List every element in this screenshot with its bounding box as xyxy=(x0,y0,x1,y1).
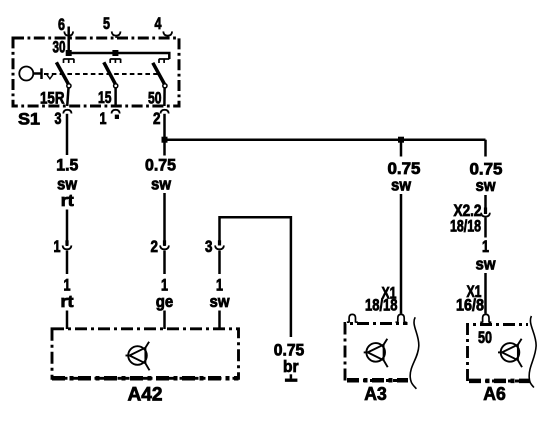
wire below junction xyxy=(163,140,166,156)
svg-text:2: 2 xyxy=(153,110,161,128)
junction dot contact 2 xyxy=(112,50,118,56)
connector 3 pin xyxy=(218,240,221,245)
wire above connector 1 xyxy=(66,210,69,247)
wire below X2.2 xyxy=(484,218,487,238)
pin 3 socket xyxy=(63,110,71,114)
svg-text:15R: 15R xyxy=(40,90,65,108)
svg-text:1.5: 1.5 xyxy=(56,157,78,175)
wire down to A3 xyxy=(400,194,403,314)
svg-text:A3: A3 xyxy=(364,383,387,404)
wire into A42 pin 3 xyxy=(218,311,221,330)
A6 box bottom bold edge xyxy=(469,379,530,384)
ground wire lower stub xyxy=(290,374,293,378)
A42 box bottom bold edge xyxy=(52,376,239,381)
svg-text:50: 50 xyxy=(478,329,492,347)
pin 5 stub xyxy=(115,36,117,38)
svg-text:6: 6 xyxy=(58,16,65,34)
svg-text:3: 3 xyxy=(55,110,62,128)
cylinder link xyxy=(34,72,42,75)
switch blade 1 xyxy=(56,62,68,84)
fixed contact 1 (comb) xyxy=(64,59,74,63)
wire from junction to A3 xyxy=(400,140,403,157)
A3 pin socket (X1) xyxy=(347,314,358,322)
switch S1 box xyxy=(13,38,179,106)
blade 1 wire to box edge xyxy=(67,88,68,106)
connector 3 socket xyxy=(215,245,224,249)
fixed contact 2 (comb) xyxy=(110,59,120,63)
A3 pin socket with wire (X1) xyxy=(396,314,407,322)
cylinder link bar xyxy=(40,68,43,79)
switch blade 3 xyxy=(153,63,165,84)
switch blade 2 xyxy=(104,62,116,84)
svg-text:S1: S1 xyxy=(18,110,40,129)
fanfare horn A6 box xyxy=(468,325,531,382)
svg-text:4: 4 xyxy=(155,15,163,33)
svg-text:0.75: 0.75 xyxy=(388,160,421,178)
A3 break (torn edge) xyxy=(410,317,419,389)
svg-text:sw: sw xyxy=(391,177,411,195)
pin 5 socket xyxy=(112,31,121,35)
svg-text:30: 30 xyxy=(53,39,66,57)
svg-text:2: 2 xyxy=(151,238,159,256)
wire below connector 2 xyxy=(163,251,166,275)
pin 6 stub wire (terminal 30 feed) xyxy=(67,27,70,54)
svg-text:50: 50 xyxy=(148,90,162,108)
ground symbol xyxy=(285,379,298,382)
pin 2 socket xyxy=(161,110,169,114)
wire above connector 2 xyxy=(163,193,166,246)
svg-text:0.75: 0.75 xyxy=(274,341,305,359)
horn symbol A3 xyxy=(364,339,388,368)
horn symbol A42 xyxy=(126,342,150,371)
svg-text:sw: sw xyxy=(151,176,171,194)
svg-text:A42: A42 xyxy=(128,384,163,406)
ground branch wire (up and over) xyxy=(220,217,291,337)
mechanical coupling dashed line xyxy=(44,73,159,75)
fixed contact 3 (comb) xyxy=(159,59,169,63)
svg-text:rt: rt xyxy=(61,192,75,210)
actuation arrow xyxy=(47,75,53,79)
connector 2 socket xyxy=(160,245,169,249)
pin 1 socket xyxy=(112,110,120,114)
connector 2 pin xyxy=(163,240,166,245)
svg-text:br: br xyxy=(283,358,299,376)
svg-text:1: 1 xyxy=(161,276,168,294)
svg-text:1: 1 xyxy=(216,276,223,294)
svg-text:3: 3 xyxy=(205,238,213,256)
main junction node xyxy=(162,137,168,143)
terminal 30 bus wire xyxy=(69,53,170,59)
svg-text:16/8: 16/8 xyxy=(456,296,484,314)
wire above X2.2 xyxy=(484,195,487,208)
blade 3 wire to box edge xyxy=(163,88,166,106)
svg-text:18/18: 18/18 xyxy=(365,296,398,314)
junction dot contact 1 xyxy=(66,50,72,56)
pin 4 socket xyxy=(163,31,172,35)
pin 6 socket xyxy=(64,31,73,35)
svg-text:sw: sw xyxy=(476,256,496,274)
svg-text:18/18: 18/18 xyxy=(450,217,481,235)
horn unit A42 box xyxy=(52,329,239,379)
A6 pin socket (X1) xyxy=(480,314,491,322)
wire S1 pin 3 down xyxy=(66,114,69,155)
svg-text:1: 1 xyxy=(482,238,489,256)
wire corner to A6 xyxy=(484,140,487,157)
svg-text:sw: sw xyxy=(57,176,77,194)
svg-text:1: 1 xyxy=(54,238,61,256)
pin 4 stub xyxy=(167,36,169,38)
connector 1 pin xyxy=(65,240,68,245)
svg-text:15: 15 xyxy=(98,89,112,107)
svg-text:sw: sw xyxy=(210,293,230,311)
svg-text:5: 5 xyxy=(103,15,110,33)
connector 1 socket xyxy=(63,245,72,249)
svg-text:A6: A6 xyxy=(483,383,506,404)
wire into A42 pin 2 xyxy=(163,311,166,330)
svg-text:ge: ge xyxy=(156,293,174,311)
blade 2 wire to box edge xyxy=(114,88,117,106)
svg-text:0.75: 0.75 xyxy=(470,161,503,179)
svg-text:1: 1 xyxy=(100,110,107,128)
pin 1 wire stub end xyxy=(115,115,119,119)
svg-text:1: 1 xyxy=(64,276,71,294)
connector X2.2 socket xyxy=(481,213,490,217)
svg-text:rt: rt xyxy=(61,293,75,311)
svg-text:sw: sw xyxy=(476,177,496,195)
A6 break (torn edge) xyxy=(529,316,536,388)
svg-text:0.75: 0.75 xyxy=(145,157,176,175)
wire into A42 pin 1 xyxy=(66,311,69,330)
A3 box bottom bold edge xyxy=(347,378,408,383)
horn symbol A6 xyxy=(498,339,522,368)
lock cylinder xyxy=(19,67,33,81)
connector X2.2 pin xyxy=(484,208,487,215)
wire below connector 1 xyxy=(66,251,69,275)
wire above A6 xyxy=(484,273,487,314)
main wire to horns xyxy=(165,138,486,141)
wire S1 pin 2 down to junction xyxy=(163,114,166,140)
wire below connector 3 xyxy=(218,251,221,275)
junction node A3 branch xyxy=(398,137,404,143)
fanfare horn A3 box xyxy=(345,324,408,381)
